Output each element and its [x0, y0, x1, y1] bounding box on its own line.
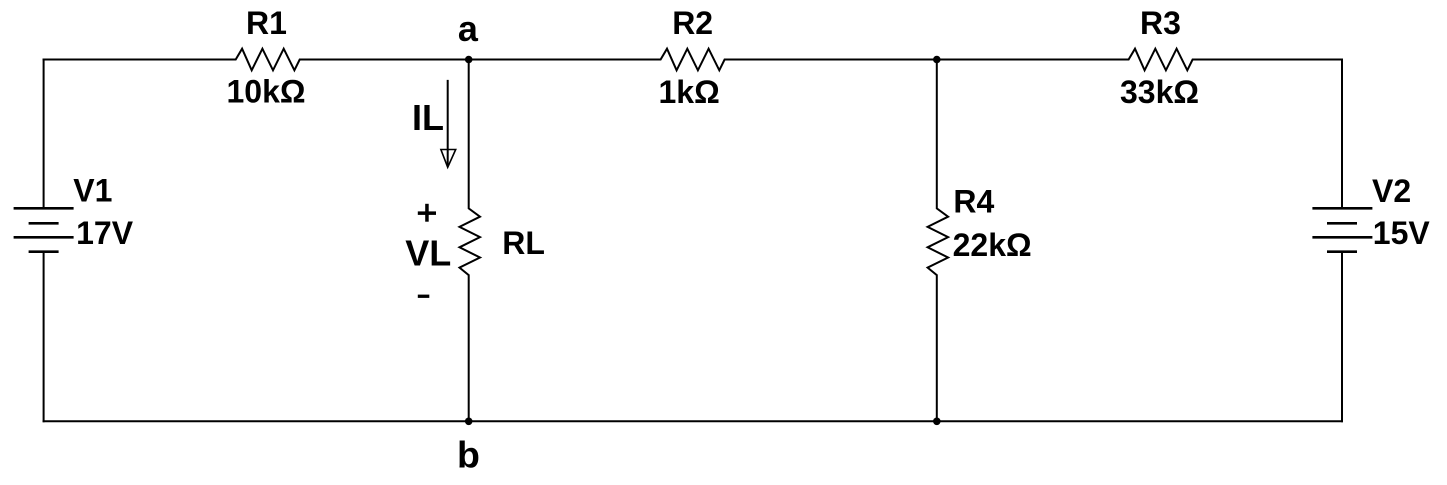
svg-text:1kΩ: 1kΩ: [659, 74, 720, 110]
svg-text:R4: R4: [953, 183, 994, 219]
svg-text:R2: R2: [672, 5, 713, 41]
svg-text:22kΩ: 22kΩ: [953, 227, 1032, 263]
svg-text:33kΩ: 33kΩ: [1120, 74, 1199, 110]
svg-text:IL: IL: [412, 97, 444, 138]
svg-text:RL: RL: [502, 225, 545, 261]
svg-text:R1: R1: [246, 5, 287, 41]
svg-text:15V: 15V: [1373, 215, 1431, 251]
svg-text:R3: R3: [1140, 5, 1181, 41]
svg-text:10kΩ: 10kΩ: [227, 74, 306, 110]
svg-text:V2: V2: [1372, 173, 1411, 209]
svg-text:b: b: [457, 434, 480, 476]
svg-text:V1: V1: [73, 173, 112, 209]
svg-text:VL: VL: [405, 233, 451, 274]
svg-text:a: a: [458, 8, 479, 49]
svg-text:17V: 17V: [76, 215, 134, 251]
